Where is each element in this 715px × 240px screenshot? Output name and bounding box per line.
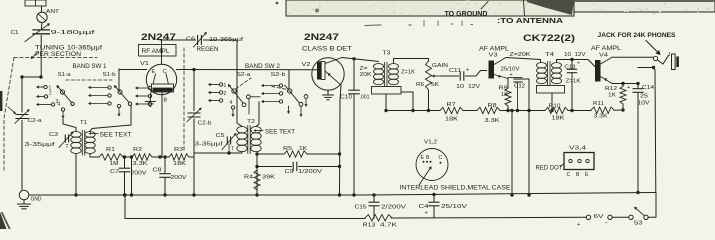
label Z=20K (T4 primary) [510, 52, 532, 58]
capacitor C5 trimmer 3-35uuf [195, 133, 237, 153]
label S1-b [103, 72, 116, 78]
svg-text:V1: V1 [140, 61, 149, 67]
wire battery minus to switch S3 [612, 216, 629, 218]
wire S2-b rotor up to grid line [288, 70, 290, 89]
switch S1-b right contact row 1 [135, 86, 152, 89]
svg-text:Z=20K: Z=20K [510, 52, 532, 58]
svg-text:S1-b: S1-b [103, 72, 116, 78]
svg-text:1K: 1K [608, 93, 616, 99]
switch S1-b rotor with wiper [114, 85, 132, 106]
dark photo corner wedge (scan artifact) [527, 0, 715, 15]
svg-text:CLASS B DET: CLASS B DET [302, 46, 352, 53]
svg-text:B: B [576, 172, 580, 178]
dashed rotor link S2-a to S2-b (diagonal) [236, 78, 288, 90]
svg-text:18K: 18K [445, 117, 458, 123]
wire supply rail (emitter bus) [386, 110, 440, 112]
svg-text:BAND SW 1: BAND SW 1 [73, 64, 108, 70]
svg-text:4: 4 [230, 100, 233, 106]
switch S2-a contact 3 [208, 99, 223, 102]
svg-text:R13: R13 [363, 223, 376, 229]
transformer T3 label [383, 51, 391, 57]
wire R3 to C2-b line and on to T2 [189, 151, 242, 157]
svg-text:GAIN: GAIN [432, 63, 448, 69]
potentiometer R6 5K GAIN [416, 59, 448, 111]
switch S1-b contact 4 down-arrow [117, 104, 120, 116]
svg-text:2: 2 [224, 91, 227, 97]
svg-text:C15: C15 [355, 205, 367, 211]
switch S1-b left contact row 3 [88, 102, 111, 105]
svg-text:R5: R5 [283, 146, 292, 152]
svg-text:E: E [152, 69, 156, 75]
svg-text:6V: 6V [594, 214, 604, 220]
svg-text:R4: R4 [244, 175, 253, 181]
capacitor C14 25/10V [627, 84, 654, 195]
switch S2-b right contact with down-arrow [304, 95, 308, 107]
wire V2 emitter down to output line [340, 85, 342, 195]
pinout diagram V3,4 with RED DOT [564, 146, 594, 179]
wire V4 collector to jack [601, 57, 654, 64]
wire T1 secondary bottom to resistor rail [90, 154, 99, 157]
wire C12 to ground bus column [522, 79, 531, 197]
capacitor C1 variable 9-180uuf [11, 23, 96, 41]
transformer T2 label [247, 119, 255, 125]
wire V2 emitter with arrow [325, 71, 341, 85]
svg-text:1K: 1K [299, 146, 307, 152]
svg-text:3.3K: 3.3K [133, 161, 148, 167]
capacitor C2-b variable (tuning gang b) [187, 69, 212, 197]
wire rail R7 to R8 [427, 109, 477, 112]
svg-text:C5: C5 [216, 133, 225, 139]
svg-text:R7: R7 [447, 102, 456, 108]
wire C1 down to node A [40, 36, 42, 78]
wire down to C2-a [21, 77, 23, 112]
svg-text:R3: R3 [174, 147, 183, 153]
ground symbol at GND terminal [18, 200, 31, 209]
svg-text:S2-b: S2-b [271, 72, 286, 78]
wire T1 primary bottom to ground bus [74, 154, 77, 197]
capacitor C3 trimmer 3-35uuf [25, 131, 74, 149]
transformer T1 secondary winding [85, 132, 95, 154]
caption remnant tick marks (scan artifact) [365, 21, 473, 27]
title 2N247 (V1) [141, 31, 176, 42]
resistor R12 1K [605, 84, 626, 111]
svg-text:T4: T4 [545, 52, 555, 58]
svg-text:1/200V: 1/200V [298, 169, 322, 175]
switch S2-a contact 1 [208, 83, 227, 89]
svg-text:C2-b: C2-b [198, 121, 212, 127]
ground symbol at V2 base [323, 95, 334, 100]
svg-text:1M: 1M [110, 161, 119, 167]
svg-text:S1-a: S1-a [58, 72, 72, 78]
svg-text:18K: 18K [173, 161, 186, 167]
svg-text:V4: V4 [599, 53, 608, 59]
label Z=1K (T3 secondary) [401, 70, 415, 76]
wire rail R8 to R10 [500, 109, 545, 112]
svg-text:C: C [567, 172, 571, 178]
svg-text:+: + [425, 211, 428, 217]
dashed gang link line (tuning capacitor sections) [4, 58, 97, 171]
resistor R2 3.3K [132, 147, 152, 167]
svg-text:B: B [426, 155, 430, 161]
transformer T4 bobbin base [537, 86, 565, 94]
dashed gang link line (C2-b / C6 section) [183, 48, 185, 150]
svg-text:S2-a: S2-a [237, 72, 252, 78]
leader line to photo above (TO ANTENNA) [524, 1, 525, 16]
wire V2 collector up-right [325, 58, 342, 64]
wire S2 centre column down to T2 secondary top [256, 102, 259, 127]
svg-text:+: + [466, 68, 469, 74]
left edge scan artifacts [0, 91, 10, 229]
svg-text:SEE TEXT: SEE TEXT [265, 130, 295, 136]
switch S2-b below-rotor down-arrow [287, 106, 290, 114]
label TO ANTENNA [497, 16, 563, 25]
wire S1-b rotor column up to V1 line [118, 69, 120, 90]
label RED DOT with pointer [536, 164, 565, 172]
transformer T2 secondary winding [251, 127, 261, 152]
svg-text:SEE TEXT: SEE TEXT [100, 132, 132, 138]
wire S1-b to T1 secondary top [90, 106, 131, 132]
label SEE TEXT (T1) with pointer [89, 132, 132, 138]
svg-text:2/200V: 2/200V [381, 205, 406, 211]
wire S3 to ground bus right end [648, 193, 656, 218]
svg-text:1: 1 [224, 83, 227, 89]
svg-text:4.7K: 4.7K [380, 223, 397, 229]
wire V1 top to regen line [161, 40, 163, 64]
switch S1-a rotor with wiper [57, 85, 75, 106]
transformer T3 secondary winding [389, 64, 399, 85]
pinout diagram V1,2 metal case [416, 140, 448, 181]
label CLASS B DET (V2) [302, 46, 352, 53]
transformer T1 label [80, 120, 87, 126]
transistor V1 2N247 RF amplifier [140, 61, 177, 104]
wire V1 base down to rail [160, 92, 162, 157]
wire T2 primary bottom to rail [241, 152, 243, 155]
svg-text:Z=1K: Z=1K [401, 70, 415, 76]
svg-text:200V: 200V [131, 171, 147, 177]
transistor V4 CK722 output AF amplifier [591, 46, 622, 82]
wire V2 collector to T3 primary [342, 57, 379, 61]
label JACK FOR 24K PHONES with thick arrow [598, 32, 677, 55]
svg-text:4: 4 [58, 102, 61, 108]
wire V2 base bar to ground [327, 90, 329, 95]
svg-text:C1: C1 [11, 30, 19, 36]
svg-text:10: 10 [456, 84, 464, 90]
switch S2 centre contact row 1 [261, 84, 283, 87]
svg-text:18K: 18K [552, 116, 565, 122]
resistor R1 1M [99, 147, 123, 167]
svg-text:3.3K: 3.3K [594, 114, 608, 120]
svg-text:C4: C4 [419, 204, 429, 210]
svg-text:C11: C11 [449, 68, 461, 74]
transformer T3 bobbin base [372, 87, 402, 95]
wire ANT terminal to C1 [40, 23, 43, 30]
battery 6V terminals [577, 214, 612, 228]
pointer arrow interlead shield [419, 166, 432, 185]
svg-text:10V: 10V [638, 101, 650, 107]
capacitor C6 variable 10-365uuf REGEN [186, 32, 243, 53]
wire regen line right to T2 [204, 39, 238, 41]
wire C2-a to GND terminal [21, 121, 23, 191]
title 2N247 (V2) [304, 31, 339, 42]
svg-text:25: 25 [640, 94, 648, 100]
svg-text:V2: V2 [302, 62, 311, 68]
antenna connector square [25, 0, 46, 6]
svg-text:R9: R9 [499, 86, 508, 92]
resistor R9 1K emitter bias [499, 79, 512, 111]
svg-text:C7: C7 [110, 169, 119, 175]
resistor R5 1K [283, 146, 307, 157]
svg-text:C9: C9 [285, 169, 294, 175]
label S2-b [271, 72, 286, 78]
svg-text:200V: 200V [171, 175, 187, 181]
switch S2-b rotor with wiper [285, 85, 303, 106]
svg-text:JACK FOR 24K PHONES: JACK FOR 24K PHONES [598, 32, 677, 39]
svg-text:V3: V3 [489, 53, 498, 59]
phone jack J [653, 52, 679, 70]
svg-text:10: 10 [564, 52, 571, 58]
capacitor C2-a variable (tuning gang a) [15, 109, 42, 124]
capacitor C11 10/12V coupling [441, 68, 487, 91]
capacitor C8 200V to ground bus [153, 157, 187, 197]
terminal GND [19, 190, 42, 202]
transformer T4 core [548, 62, 550, 86]
switch S2-a contact 2 [208, 91, 227, 97]
svg-text:3-35μμf: 3-35μμf [25, 142, 56, 148]
switch S1-b right contact row 3 [135, 102, 152, 105]
label box RF AMPL (V1) [139, 45, 177, 57]
svg-text:TUNING 10-365μμf: TUNING 10-365μμf [35, 46, 102, 52]
resistor R8 3.3K [477, 103, 500, 124]
wire S2-b blade contact down-arrow [299, 106, 302, 117]
svg-text::TO ANTENNA: :TO ANTENNA [497, 16, 563, 25]
node A junction (antenna/switch bus) [39, 75, 42, 78]
label TO GROUND with leader [445, 2, 489, 18]
svg-text:12V: 12V [468, 84, 480, 90]
wire node A to C2-a branch [20, 75, 41, 78]
svg-text:S3: S3 [634, 221, 643, 227]
resistor R11 3.3K [591, 101, 614, 120]
label BAND SW 1 [73, 64, 108, 70]
svg-text:R12: R12 [605, 86, 617, 92]
svg-text:E: E [585, 172, 589, 178]
label SEE TEXT (T2) with pointer [254, 129, 296, 135]
svg-text:R6: R6 [416, 82, 424, 88]
svg-text:2N247: 2N247 [304, 31, 339, 42]
svg-text:E: E [421, 155, 425, 161]
switch S1-a contact 2 [36, 91, 52, 99]
wire rail R10 to R11 [550, 109, 591, 112]
svg-text:5K: 5K [431, 82, 439, 88]
label S2-a [237, 72, 252, 78]
wire battery bus left leg [123, 193, 126, 218]
ground symbol at V1 emitter [145, 98, 155, 107]
svg-text:20K: 20K [360, 72, 373, 78]
wire T2 secondary bottom down (detector return) [255, 153, 258, 197]
wire T2 secondary top line to R5 [255, 152, 284, 155]
wire battery bus to battery + [391, 216, 586, 219]
svg-text:T: T [231, 147, 234, 153]
svg-text:V1,2: V1,2 [424, 140, 437, 146]
photo remnant band top centre-right (scan artifact) [276, 0, 715, 16]
jack sleeve contact to ground bus [638, 66, 656, 193]
svg-text:V3,4: V3,4 [569, 146, 587, 152]
capacitor C7 200V to ground bus [110, 157, 147, 197]
svg-text:1K: 1K [501, 92, 508, 98]
switch S2-a rotor with wiper [228, 84, 246, 107]
title CK722(2) [523, 32, 575, 43]
wire antenna square to ANT terminal [41, 6, 43, 12]
wire V4 emitter with arrow [601, 77, 613, 84]
switch S1-a contact 1 [36, 85, 52, 91]
switch S1-a contact 3 [36, 99, 59, 106]
svg-text:R10: R10 [549, 104, 561, 110]
wire regen line left [160, 39, 196, 41]
transformer T4 label [545, 52, 555, 58]
switch S1-b right contact row 2 [135, 94, 152, 97]
transformer T2 primary winding [237, 127, 247, 152]
svg-text:T3: T3 [383, 51, 391, 57]
wire V1 emitter to ground [150, 90, 151, 98]
svg-text:T2: T2 [247, 119, 255, 125]
svg-text:C: C [439, 155, 443, 161]
transistor V3 CK722 first AF amplifier [479, 47, 510, 79]
svg-text:+: + [510, 73, 513, 79]
transistor V2 2N247 class B detector [302, 58, 345, 90]
svg-text:T: T [66, 144, 69, 150]
svg-text:C6: C6 [186, 37, 195, 43]
transformer T1 core [82, 131, 84, 156]
switch S2 centre contact row 3 [261, 100, 283, 103]
svg-text:R8: R8 [488, 103, 497, 109]
svg-text:.001: .001 [360, 95, 370, 101]
wire T3 base to supply rail [384, 94, 387, 112]
dashed rotor link S1-a to S1-b [66, 79, 112, 81]
svg-text:B: B [164, 98, 168, 104]
capacitor C12 25/10V emitter bypass [501, 67, 526, 111]
svg-text:INTERLEAD SHIELD,METAL CASE: INTERLEAD SHIELD,METAL CASE [400, 185, 511, 192]
label Z=20K (T3 primary) [360, 66, 373, 78]
wire ground bus (B+ line) [29, 193, 656, 196]
wire S1-b to V1 (grid line) [119, 69, 147, 71]
wire V1 to V2 base (grid line) [177, 68, 318, 71]
svg-text:C3: C3 [49, 132, 58, 138]
label TUNING 10-365uuf PER SECTION with arrow [31, 46, 103, 60]
terminal ANT [37, 9, 60, 23]
svg-text:2: 2 [49, 91, 52, 97]
switch S2 centre contact row 2 [261, 92, 283, 95]
svg-text:C13: C13 [565, 65, 576, 71]
switch S1-b left contact row 1 [88, 86, 111, 89]
wire R2 to R3 [152, 155, 169, 158]
svg-text:3-35μμf: 3-35μμf [195, 142, 224, 148]
svg-text:9-180μμf: 9-180μμf [51, 30, 96, 36]
wire T4 secondary top to V4 base [557, 58, 596, 67]
label BAND SW 2 [245, 64, 281, 70]
capacitor C13 10/12V across T4 secondary [564, 52, 586, 111]
transformer T4 secondary winding [552, 63, 562, 84]
svg-text:GND: GND [31, 197, 42, 203]
svg-text:BAND SW 2: BAND SW 2 [245, 64, 281, 70]
svg-text:3.3K: 3.3K [485, 118, 500, 124]
capacitor C9 .1/200V in output line [257, 162, 341, 175]
svg-text:12V: 12V [575, 52, 586, 58]
svg-text:39K: 39K [262, 175, 275, 181]
label S1-a [58, 72, 72, 78]
svg-text:C8: C8 [153, 168, 162, 174]
resistor R3 18K [169, 147, 189, 167]
svg-text:T1: T1 [80, 120, 87, 126]
svg-text:R2: R2 [133, 147, 142, 153]
svg-text:REGEN: REGEN [197, 47, 219, 53]
transformer T4 primary winding [537, 63, 547, 84]
svg-text:RF AMPL: RF AMPL [142, 48, 171, 55]
transformer T2 core [248, 126, 250, 154]
switch S2-a contact 4 down-arrow [230, 100, 235, 117]
svg-text:+: + [577, 61, 580, 67]
wire battery bus [125, 218, 365, 220]
wire V3 collector to T4 primary [494, 58, 541, 65]
svg-text:25/10V: 25/10V [441, 204, 467, 210]
capacitor C15 2/200V [355, 193, 407, 218]
switch S3 [629, 207, 648, 227]
capacitor C10 .001 to ground bus [340, 59, 370, 197]
wire T4 base to supply rail [551, 93, 553, 111]
wire R1 to R2 [123, 155, 132, 158]
svg-text:Z=1K: Z=1K [566, 79, 581, 85]
svg-text:C14: C14 [642, 85, 654, 91]
svg-text:ANT: ANT [46, 9, 59, 15]
wire junction R1/R2 down to ground bus [130, 155, 133, 196]
wire T3 secondary top to gain pot [394, 59, 429, 64]
svg-text:+: + [627, 85, 630, 91]
label INTERLEAD SHIELD METAL CASE [400, 185, 511, 192]
svg-text:C2-a: C2-a [28, 118, 43, 124]
transformer T3 core [385, 63, 387, 87]
svg-text:CK722(2): CK722(2) [523, 32, 575, 43]
svg-text:TO GROUND: TO GROUND [445, 11, 488, 18]
svg-text:R11: R11 [593, 101, 604, 107]
resistor R10 18K [545, 104, 568, 122]
wire rail end to R12 [614, 108, 625, 111]
node V2 emitter column junctions [338, 193, 341, 196]
wire S1-a contact4 to T1 primary top [63, 119, 76, 132]
resistor R7 18K [440, 102, 463, 123]
svg-text:R1: R1 [106, 147, 115, 153]
wire R5 to emitter column [307, 152, 341, 155]
transformer T1 primary winding [71, 132, 81, 154]
switch S2-a auxiliary contact [247, 95, 261, 114]
wire down from regen line to T2 primary [237, 40, 242, 127]
wire T3 base right leg to rail [401, 92, 415, 112]
resistor R4 39K vertical [244, 170, 275, 190]
switch S1-a contact 4 to T1 [58, 102, 65, 119]
wire V3 emitter with arrow [494, 75, 508, 79]
wire rail junction down to ground bus [510, 111, 513, 197]
capacitor C4 25/10V [419, 193, 468, 218]
svg-text:C10: C10 [340, 95, 352, 101]
svg-text:AF AMPL: AF AMPL [591, 46, 622, 52]
resistor R13 4.7K [363, 215, 398, 229]
svg-text:RED DOT: RED DOT [536, 166, 563, 172]
wire emitter node to C14 [612, 82, 640, 85]
switch S1-b left contact row 2 [88, 94, 111, 97]
svg-text:C12: C12 [514, 84, 525, 90]
transformer T3 primary winding [374, 64, 384, 85]
